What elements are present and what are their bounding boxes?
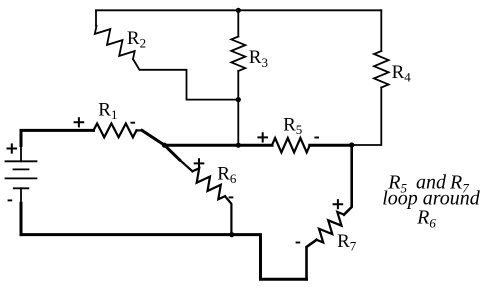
- resistor R4: [374, 51, 389, 88]
- wire R7 bottom lead: [307, 240, 317, 279]
- resistor R6: [193, 168, 226, 199]
- wire R3 top lead: [237, 10, 239, 36]
- polarity - R1 right: [131, 122, 136, 124]
- wire top horizontal: [96, 9, 381, 11]
- wire R1 right lead: [137, 129, 143, 131]
- battery B1: [6, 146, 37, 204]
- polarity + R6 top: [194, 158, 205, 168]
- node R3 bottom junction: [236, 97, 241, 102]
- wire node A to node B thick: [165, 144, 239, 147]
- wire node B to R5: [238, 144, 272, 147]
- resistor R7: [317, 212, 345, 243]
- wire bottom return: [21, 235, 307, 280]
- wire diagonal node A to R6: [165, 145, 180, 160]
- node bottom junction: [229, 232, 234, 237]
- wire R2 bottom to R3 bottom node: [133, 59, 238, 100]
- wire node C down to R7: [344, 145, 352, 215]
- wire battery negative lead: [20, 203, 23, 234]
- node C junction: [349, 142, 354, 147]
- wire diagonal R1 to node A: [142, 130, 165, 145]
- resistor R3: [231, 37, 245, 72]
- resistor R5: [272, 138, 310, 152]
- wire R6 bottom lead: [225, 196, 231, 234]
- polarity + R5 left: [257, 132, 268, 142]
- resistor R2: [95, 26, 135, 59]
- polarity - battery: [8, 199, 13, 201]
- wire top-left drop: [95, 10, 97, 26]
- wire middle vertical node to node: [237, 100, 239, 146]
- node B junction: [236, 143, 241, 148]
- wire R6 top lead: [179, 159, 193, 171]
- node top junction: [236, 8, 241, 13]
- wire battery positive to R1: [21, 130, 94, 145]
- resistor R1: [94, 124, 137, 138]
- polarity - R7 bottom: [296, 242, 301, 244]
- polarity + R1 left: [74, 117, 85, 127]
- wire R3 bottom lead: [237, 71, 239, 100]
- wire R4 bottom lead to junction: [352, 88, 382, 146]
- polarity - R5 right: [314, 137, 319, 139]
- wire R5 to node C: [310, 144, 352, 147]
- polarity - R6 bottom: [229, 196, 234, 198]
- node A junction: [162, 143, 167, 148]
- svg-text:loop around: loop around: [382, 188, 481, 210]
- wire R4 top lead: [380, 10, 382, 51]
- polarity + battery: [7, 143, 18, 153]
- polarity + R7 top: [333, 199, 344, 209]
